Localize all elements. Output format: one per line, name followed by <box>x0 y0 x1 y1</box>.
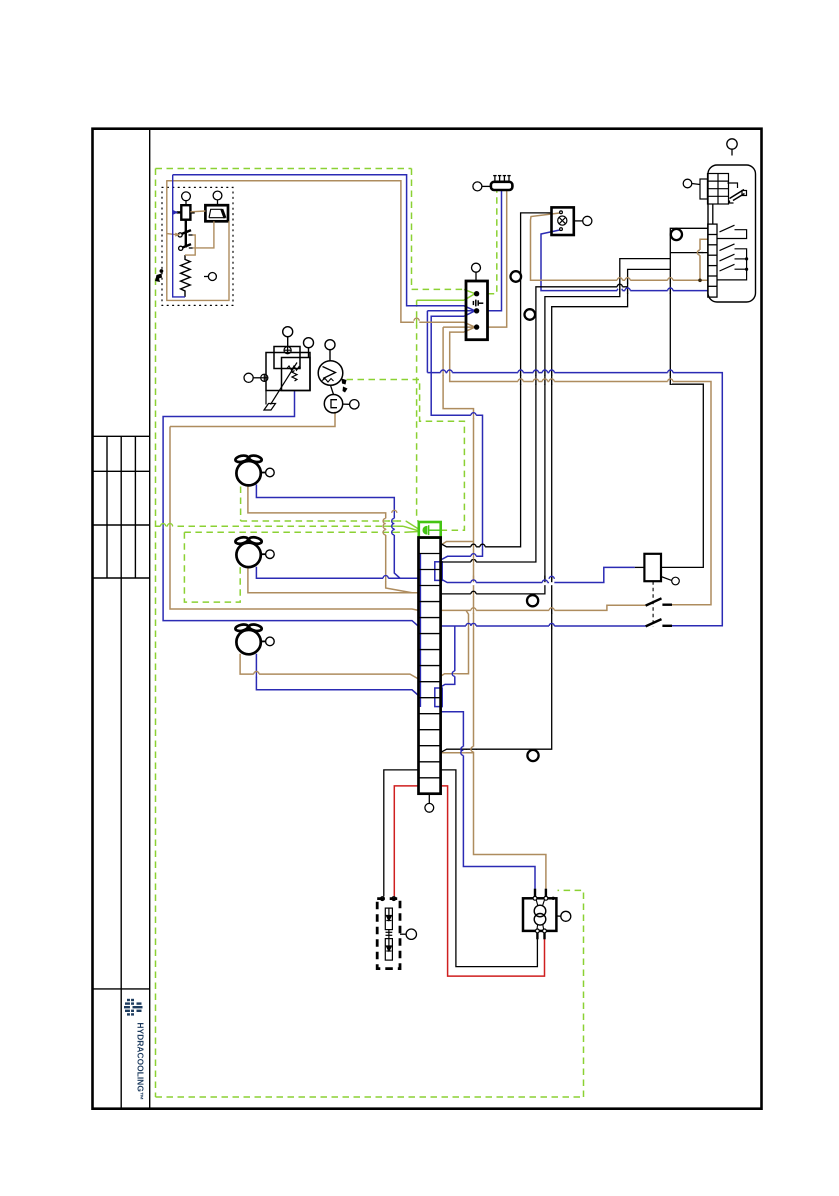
connector pin 1 <box>474 291 479 296</box>
ring terminal on lamp feed <box>511 271 522 282</box>
regulator plus terminal left <box>261 374 268 381</box>
wire blue strip c6 strap down to c9 <box>441 626 455 687</box>
wire red strip c15 right to pump bottom <box>441 786 545 976</box>
connector polarising mark <box>473 300 483 307</box>
voltage regulator module rects <box>266 347 310 391</box>
alternator rotor circle <box>318 361 343 395</box>
pump motor pins <box>535 889 546 940</box>
logo HYDRACOOLING <box>124 998 146 1101</box>
diode module dashed box <box>377 899 400 969</box>
relay R1 <box>644 554 661 581</box>
thermostat blue link <box>173 175 185 297</box>
wire tan connector pin3 drop B to ignition loop <box>450 332 711 605</box>
wire blue pin2 drop A vertical <box>426 311 428 373</box>
resistor in thermostat box <box>181 255 191 297</box>
ring terminal on S4 at strip <box>527 750 538 761</box>
wire green regulator to fan module <box>347 380 465 531</box>
terminal circle fan M2 <box>260 550 274 559</box>
wire tan connector pin3 to battery connector <box>488 191 507 327</box>
wire tan fan1 drop <box>248 485 419 593</box>
wire black staircase S3 to strip c2 <box>441 287 628 562</box>
svg-text:HYDRACOOLING™: HYDRACOOLING™ <box>136 1023 146 1101</box>
terminal circle fan M3 <box>260 637 274 646</box>
regulator trimmer arrow <box>264 363 297 411</box>
wire green fan bundle line 2 <box>156 525 404 527</box>
terminal circle ignition accessory <box>683 179 700 188</box>
ignition terminal strip <box>708 204 717 297</box>
pump pin mark top right <box>552 897 555 900</box>
clip dot on harness edge <box>160 269 164 273</box>
wire green fan2 loop <box>184 532 240 602</box>
fan motor M1 <box>235 455 262 486</box>
fan control module green box <box>419 522 441 538</box>
ring terminal on S1 at strip <box>527 595 538 606</box>
wire tan connector pin3 drop to lower tan bus <box>443 326 475 328</box>
wire tan switch1 to strip c5 <box>441 605 646 610</box>
disconnect switch 2 <box>646 619 672 626</box>
wire green bundle fan-in diagonals into module <box>403 521 419 532</box>
terminal circle regulator T1 <box>283 327 293 347</box>
changeover switch in thermostat box <box>178 220 193 251</box>
junction dot tan ignition branch <box>698 279 702 283</box>
wire tan strip c1 stub up to tan bus <box>441 542 474 546</box>
wire tan dotted-box top run to connector pin 3 <box>166 181 475 332</box>
wire blue fan1 down drop <box>256 485 418 579</box>
wire black ignition to relay feed <box>661 228 708 567</box>
terminal circle B thermostat <box>213 191 222 205</box>
terminal circle pump <box>556 911 570 921</box>
relay black stub left <box>635 566 645 568</box>
disconnect switch 1 <box>646 598 672 605</box>
terminal circle above connector <box>472 263 481 281</box>
regulator main resistor <box>292 371 297 382</box>
wire blue jumper bracket c2-c3 <box>435 562 442 581</box>
wire blue fan2 to strip c3 <box>256 567 418 578</box>
wire black lamp feed down to strip c1 <box>441 213 552 547</box>
wire blue regulator branch down left side <box>163 391 418 627</box>
wire green connector pin1 to battery connector <box>488 191 497 294</box>
terminal circle regulator T5 <box>343 400 359 409</box>
wire green harness box right edge to pump <box>558 890 584 1097</box>
wire green lower feed into connector pin 1 <box>417 299 464 301</box>
fan motor M3 <box>235 623 262 654</box>
wire green fan bundle line 1 <box>241 520 406 522</box>
wire tan pin3 drop to lower tan bus <box>443 327 546 897</box>
terminal circle C thermostat <box>204 273 216 281</box>
wire green harness box bottom edge <box>156 1096 584 1098</box>
wire green harness box top edge <box>156 168 412 170</box>
regulator plus terminal top <box>284 347 291 354</box>
black flag small lower <box>343 387 348 393</box>
wire blue strip bottom right to pump motor <box>441 712 535 898</box>
wire blue connector pin2 to battery connector <box>488 191 502 311</box>
diode D1 <box>385 908 392 930</box>
wire blue connector pin2 left drop A to main switch loop <box>427 310 475 312</box>
wire tan regulator brush to left bus <box>170 412 335 427</box>
ignition strip switch arms <box>717 225 748 280</box>
terminal circle regulator T2 <box>304 338 314 358</box>
wire red strip c15 left to diode box <box>394 786 418 897</box>
wire green fan1 stub <box>240 487 242 522</box>
ignition switch enclosure <box>708 165 756 302</box>
terminal circle below strip <box>425 794 434 812</box>
fuse F1 in thermostat box <box>177 205 195 220</box>
wire black ignition staircase S4 long drop to strip c13 <box>441 269 671 752</box>
warning lamp box <box>552 207 574 235</box>
diode module top pins <box>381 897 396 901</box>
connector pin 2 <box>474 308 479 313</box>
terminal circle regulator T3 <box>325 340 335 361</box>
wire tan fan3 to strip c8 <box>240 654 418 679</box>
wire tan ignition branch up <box>700 239 708 280</box>
wire blue fuse to top run to connector pin 2 <box>173 175 475 316</box>
wire green harness box left edge <box>155 169 157 1098</box>
wire blue lamp to ignition strip <box>541 230 708 291</box>
diode D2 <box>385 939 392 961</box>
wire blue fan3 to strip c10 <box>256 654 418 696</box>
wire tan left bus down to strip c5 <box>170 427 419 611</box>
thermostat internal tan links <box>167 181 229 301</box>
clip flag on harness edge <box>155 274 162 283</box>
battery connector top <box>491 176 513 190</box>
pump motor internal links <box>536 898 545 931</box>
wire tan fan2 to strip c4 <box>248 567 419 593</box>
wire blue connector pin2 drop B to strip c2 <box>431 316 482 560</box>
wire blue strip inside-left bus <box>419 554 421 707</box>
terminal circle diode module <box>400 929 416 939</box>
bulkhead connector 3-pin <box>466 281 488 340</box>
thermostat assembly dotted enclosure <box>162 187 233 305</box>
ignition accessory block <box>700 179 708 199</box>
diode pack link <box>386 930 393 939</box>
terminal circle regulator T4 <box>244 373 261 382</box>
wire green fan bundle line 3 <box>184 531 405 533</box>
terminal circle fan M1 <box>260 468 274 477</box>
wire green connector pin1 branch down to fan feed module <box>417 300 419 524</box>
wire green feed diagonals into pin 1 <box>464 289 475 300</box>
fan motor M2 <box>235 536 262 567</box>
connector pin 3 <box>474 324 479 329</box>
pump motor box <box>523 898 556 931</box>
terminal circle A thermostat <box>182 192 191 205</box>
terminal circle relay <box>661 577 679 585</box>
wire tan strip c13 stub <box>441 752 474 754</box>
main terminal strip <box>419 538 441 794</box>
wire black ignition second cell stub <box>670 252 708 254</box>
wire black ignition staircase S1 to strip c4 <box>441 259 671 594</box>
wire black strip c14 left to diode box <box>384 770 419 897</box>
terminal circle lamp <box>574 216 592 225</box>
wire tan lamp to ignition strip with branch <box>531 213 708 280</box>
relay to switches linkage dashed <box>652 581 654 627</box>
terminal circle ignition top <box>727 139 737 156</box>
wire black strip c14 right to pump bottom <box>441 770 538 967</box>
wire blue long run to right and down through switch 2 <box>427 373 722 626</box>
brush assembly circle <box>324 395 342 413</box>
wire blue relay feed from strip c3 <box>441 567 635 582</box>
wire green drop to connector pin 1 <box>412 169 465 290</box>
display module in thermostat box <box>205 205 228 221</box>
terminal circle battery connector <box>473 182 491 191</box>
wire tan strip c5 strap down to c8 <box>441 610 469 676</box>
ring terminal on S3 drop <box>525 309 536 320</box>
ignition key switch contact grid <box>708 174 729 205</box>
ignition key contacts right <box>727 183 746 203</box>
black flag at rotor output <box>342 379 347 385</box>
ring terminal near ignition <box>671 229 682 240</box>
wire blue switch2 to terminal strip c6 right <box>441 625 646 627</box>
wire blue jumper bracket c10-c11 <box>435 688 442 707</box>
wire crossover hops <box>160 250 703 756</box>
regulator small resistor <box>287 366 301 370</box>
